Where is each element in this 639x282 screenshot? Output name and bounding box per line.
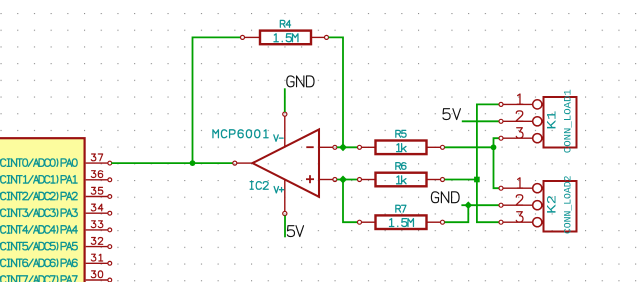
MCU pin 31 PA6 [0, 254, 112, 266]
K2 pin 2 [499, 195, 542, 210]
wire feedback vertical left [193, 37, 241, 163]
MCU pin 35 PA2 [0, 187, 112, 199]
wire R7 out to GND node [445, 205, 469, 222]
label MCP6001 [213, 130, 268, 138]
junction non-inverting node [339, 176, 347, 184]
op-amp output pin [233, 161, 253, 165]
op-amp non-inverting input pin [306, 175, 337, 183]
R7 label [396, 205, 406, 212]
5V power symbol below op-amp [284, 216, 286, 238]
resistor R6 [358, 173, 445, 187]
label V+ [274, 187, 284, 193]
K1 pin 2 [499, 111, 542, 126]
GND label top [287, 76, 314, 87]
MCU pin 36 PA1 [0, 171, 112, 183]
junction GND node (diamond) [464, 201, 472, 209]
R6 label [396, 163, 406, 170]
MCU pin 32 PA5 [0, 238, 112, 250]
R4 value 1.5M [274, 34, 298, 42]
K2 pin 3 [499, 212, 542, 227]
junction R6 node (square) [474, 177, 480, 183]
wire node up to K1 pin3 [494, 138, 499, 147]
connector K1 CONN_LOAD1 body [544, 97, 577, 148]
K1 pin 3 [499, 128, 542, 143]
R6 value 1k [397, 176, 407, 184]
K1 pin 1 [499, 94, 542, 109]
op-amp inverting input pin [306, 145, 337, 149]
op-amp V+ power pin (bottom) [283, 179, 287, 215]
K2 pin 1 [499, 178, 542, 193]
wire non-inverting node down to R7 [343, 180, 357, 223]
MCU pin 34 PA3 [0, 204, 112, 216]
wire K1 pin1 to K2 pin3 vertical [477, 104, 499, 222]
wire PA0 to op-amp output [111, 162, 233, 164]
R5 label [396, 130, 406, 137]
MCU pin 33 PA4 [0, 221, 112, 233]
R5 value 1k [397, 144, 407, 152]
wire non-inverting input to R6 [337, 179, 357, 181]
resistor R4 [241, 31, 329, 45]
R4 label [280, 20, 290, 27]
MCU pin 37 PA0 [0, 154, 112, 166]
junction R5 node [491, 144, 497, 150]
MCU pin 30 PA7 [0, 271, 112, 282]
junction inverting node [339, 143, 347, 151]
op-amp V- power pin (top) [283, 112, 287, 148]
wire R6 out to vertical bus [445, 179, 477, 181]
5V power symbol right [462, 120, 499, 122]
connector K2 CONN_LOAD2 body [544, 181, 577, 232]
svg-text:CONN_LOAD2: CONN_LOAD2 [563, 176, 574, 235]
op-amp U IC2 MCP6001 triangle [253, 129, 320, 196]
resistor R5 [358, 141, 445, 155]
wire R5 out to node [445, 146, 494, 148]
svg-text:K1: K1 [545, 110, 560, 129]
wire inverting input to R5 [337, 146, 357, 148]
resistor R7 [358, 215, 445, 229]
wire GND node to K2 pin2 [468, 204, 499, 206]
wire node down to K2 pin1 [494, 147, 499, 188]
svg-text:K2: K2 [545, 195, 560, 214]
5V label bottom [287, 226, 303, 237]
label V- [274, 135, 283, 141]
5V label right [443, 109, 460, 120]
R7 value 1.5M [389, 219, 413, 227]
junction at output node [190, 160, 196, 166]
GND label right [431, 192, 459, 203]
GND power symbol right [461, 204, 468, 206]
svg-text:CONN_LOAD1: CONN_LOAD1 [563, 89, 574, 153]
MCU body (ATmega port A, clipped at left) [0, 138, 85, 282]
GND power symbol above op-amp [284, 88, 286, 112]
label IC2 [250, 182, 268, 190]
wire R4 right to inverting node [329, 37, 343, 147]
